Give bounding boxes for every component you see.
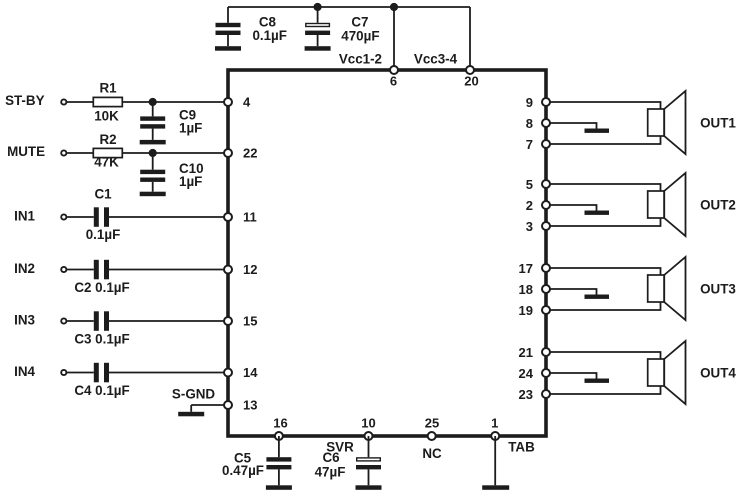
- node IN2 input terminal: [14, 261, 66, 276]
- svg-text:IN3: IN3: [14, 313, 35, 328]
- svg-text:R1: R1: [99, 81, 117, 96]
- svg-text:25: 25: [425, 416, 439, 431]
- ground (C5): [266, 469, 292, 489]
- svg-text:8: 8: [526, 116, 533, 131]
- label C6 value 47uF: [315, 450, 346, 480]
- node TAB: [508, 440, 535, 455]
- node MUTE input terminal: [7, 144, 66, 159]
- pin 21: [519, 345, 550, 360]
- label OUT1: [700, 116, 736, 131]
- label C5 value 0.47uF: [222, 451, 264, 479]
- pin 12: [224, 262, 257, 277]
- label OUT4: [700, 366, 736, 381]
- ground (TAB): [482, 485, 509, 490]
- svg-text:Vcc3-4: Vcc3-4: [414, 51, 458, 66]
- pin 25: [425, 416, 439, 441]
- pin 19: [519, 303, 550, 318]
- svg-text:23: 23: [519, 387, 533, 402]
- pin 16: [273, 416, 287, 441]
- capacitor C6 (electrolytic): [356, 436, 381, 469]
- speaker OUT4: [648, 341, 686, 404]
- svg-text:12: 12: [243, 262, 257, 277]
- op-amp IC U1 (quad power amplifier) outline: [228, 70, 546, 436]
- node SVR: [326, 440, 354, 455]
- pin 7: [526, 137, 550, 152]
- svg-text:21: 21: [519, 345, 533, 360]
- svg-text:1µF: 1µF: [179, 121, 202, 136]
- ground (C6): [356, 469, 382, 489]
- svg-text:19: 19: [519, 303, 533, 318]
- svg-text:18: 18: [519, 282, 533, 297]
- node IN3 input terminal: [14, 313, 66, 328]
- wire R1 to pin 4: [122, 101, 228, 103]
- svg-text:14: 14: [243, 365, 258, 380]
- pin 22: [224, 146, 257, 161]
- wire drop to pin 20: [469, 7, 471, 70]
- capacitor C4: [94, 363, 109, 383]
- svg-text:C4 0.1µF: C4 0.1µF: [74, 383, 129, 398]
- svg-text:3: 3: [526, 219, 533, 234]
- svg-text:OUT2: OUT2: [700, 198, 736, 213]
- svg-text:24: 24: [519, 366, 534, 381]
- svg-text:13: 13: [243, 398, 257, 413]
- label R2 value 47K: [94, 155, 119, 170]
- label C10 value 1uF: [179, 161, 204, 189]
- wire pin 2 to ground: [550, 205, 597, 211]
- svg-text:OUT4: OUT4: [700, 366, 736, 381]
- svg-text:22: 22: [243, 146, 257, 161]
- label C1 value 0.1uF: [86, 187, 121, 243]
- capacitor C8: [216, 7, 241, 35]
- svg-text:9: 9: [526, 95, 533, 110]
- node S-GND: [172, 387, 215, 402]
- capacitor C9: [140, 102, 165, 129]
- node Vcc1-2: [339, 51, 382, 66]
- wire Vcc top rail: [228, 6, 470, 8]
- ground (C9): [140, 129, 166, 145]
- svg-text:OUT1: OUT1: [700, 116, 736, 131]
- wire IN4 to C4: [66, 372, 93, 374]
- wire C3 to pin 15: [109, 320, 228, 322]
- pin 15: [224, 314, 257, 329]
- ground (C8): [215, 35, 241, 51]
- capacitor C5: [266, 436, 291, 469]
- wire drop to pin 6: [393, 7, 395, 70]
- junction at pin-6 branch: [390, 3, 398, 11]
- wire pin 18 to ground: [550, 289, 597, 295]
- node NC: [422, 446, 442, 461]
- svg-text:10: 10: [361, 416, 375, 431]
- wire pin 5 to speaker OUT2 plus: [550, 184, 661, 191]
- speaker OUT2: [648, 173, 686, 236]
- capacitor C2: [94, 260, 109, 280]
- node IN1 input terminal: [14, 209, 66, 224]
- svg-text:47µF: 47µF: [315, 465, 346, 480]
- pin 2: [526, 198, 550, 213]
- capacitor C7 (electrolytic): [305, 7, 330, 35]
- capacitor C1: [94, 207, 109, 227]
- ground (S-GND): [178, 405, 204, 416]
- wire IN3 to C3: [66, 320, 93, 322]
- label OUT3: [700, 282, 736, 297]
- pin 9: [526, 95, 550, 110]
- wire pin 24 to ground: [550, 373, 597, 379]
- resistor R2: [93, 132, 122, 158]
- wire pin 17 to speaker OUT3 plus: [550, 268, 661, 275]
- pin 17: [519, 261, 550, 276]
- ground (C10): [140, 182, 166, 196]
- pin 3: [526, 219, 550, 234]
- capacitor C3: [94, 311, 109, 331]
- junction MUTE/C10: [149, 149, 157, 157]
- pin 8: [526, 116, 550, 131]
- svg-text:47K: 47K: [94, 155, 119, 170]
- wire pin 9 to speaker OUT1 plus: [550, 102, 661, 109]
- svg-text:R2: R2: [99, 132, 116, 147]
- pin 13: [224, 398, 257, 413]
- svg-text:C6: C6: [322, 450, 339, 465]
- label C9 value 1uF: [179, 108, 202, 136]
- pin 4: [224, 95, 251, 110]
- wire R2 to pin 22: [122, 152, 228, 154]
- junction at C7: [314, 3, 322, 11]
- svg-text:0.47µF: 0.47µF: [222, 463, 264, 478]
- junction ST-BY/C9: [149, 98, 157, 106]
- ground (OUT3 center tap): [585, 295, 610, 299]
- ground (OUT4 center tap): [585, 379, 610, 383]
- label OUT2: [700, 198, 736, 213]
- wire TAB to ground: [494, 436, 496, 485]
- capacitor C10: [140, 153, 165, 182]
- pin 5: [526, 177, 550, 192]
- wire pin 3 to speaker OUT2 minus: [550, 218, 661, 226]
- pin 20: [464, 66, 478, 89]
- pin 1: [491, 416, 499, 441]
- svg-text:1: 1: [491, 416, 498, 431]
- svg-text:NC: NC: [422, 446, 442, 461]
- pin 11: [224, 210, 257, 225]
- wire pin 8 to ground: [550, 123, 597, 129]
- svg-text:ST-BY: ST-BY: [5, 93, 45, 108]
- svg-text:MUTE: MUTE: [7, 144, 45, 159]
- svg-text:OUT3: OUT3: [700, 282, 736, 297]
- wire pin 13 to S-GND ground: [191, 404, 224, 406]
- speaker OUT1: [648, 91, 686, 154]
- svg-text:7: 7: [526, 137, 533, 152]
- label C2 value 0.1uF: [74, 280, 129, 295]
- node IN4 input terminal: [14, 364, 66, 379]
- wire pin 7 to speaker OUT1 minus: [550, 136, 661, 144]
- node Vcc3-4: [414, 51, 458, 66]
- speaker OUT3: [648, 257, 686, 320]
- svg-text:470µF: 470µF: [341, 28, 379, 43]
- wire pin 19 to speaker OUT3 minus: [550, 302, 661, 310]
- svg-text:20: 20: [464, 74, 478, 89]
- label C7 value 470uF: [341, 15, 379, 44]
- svg-text:0.1µF: 0.1µF: [252, 28, 287, 43]
- pin 23: [519, 387, 550, 402]
- wire pin 23 to speaker OUT4 minus: [550, 386, 661, 394]
- label C3 value 0.1uF: [74, 332, 129, 347]
- pin 18: [519, 282, 550, 297]
- ground (OUT2 center tap): [585, 211, 610, 215]
- label C4 value 0.1uF: [74, 383, 129, 398]
- svg-text:TAB: TAB: [508, 440, 535, 455]
- wire C2 to pin 12: [109, 269, 228, 271]
- wire pin 21 to speaker OUT4 plus: [550, 352, 661, 359]
- pin 6: [390, 66, 398, 89]
- svg-text:5: 5: [526, 177, 533, 192]
- svg-text:4: 4: [243, 95, 251, 110]
- pin 14: [224, 365, 258, 380]
- wire ST-BY to R1: [66, 101, 93, 103]
- svg-text:11: 11: [243, 210, 257, 225]
- svg-text:6: 6: [390, 74, 397, 89]
- svg-text:17: 17: [519, 261, 533, 276]
- label C8 value 0.1uF: [252, 15, 287, 44]
- ground (C7): [305, 35, 331, 51]
- wire MUTE to R2: [66, 152, 93, 154]
- wire C1 to pin 11: [109, 216, 228, 218]
- svg-text:10K: 10K: [94, 109, 119, 124]
- svg-text:Vcc1-2: Vcc1-2: [339, 51, 382, 66]
- svg-text:C2 0.1µF: C2 0.1µF: [74, 280, 129, 295]
- svg-text:S-GND: S-GND: [172, 387, 215, 402]
- svg-text:IN2: IN2: [14, 261, 35, 276]
- svg-text:IN4: IN4: [14, 364, 35, 379]
- svg-text:IN1: IN1: [14, 209, 35, 224]
- ground (OUT1 center tap): [585, 129, 610, 133]
- svg-text:0.1µF: 0.1µF: [86, 227, 121, 242]
- wire IN1 to C1: [66, 216, 93, 218]
- resistor R1: [93, 81, 122, 107]
- wire IN2 to C2: [66, 269, 93, 271]
- svg-text:C3 0.1µF: C3 0.1µF: [74, 332, 129, 347]
- svg-text:C7: C7: [351, 15, 368, 30]
- wire C4 to pin 14: [109, 372, 228, 374]
- svg-text:1µF: 1µF: [179, 174, 202, 189]
- node ST-BY input terminal: [5, 93, 66, 108]
- pin 10: [361, 416, 375, 441]
- pin 24: [519, 366, 550, 381]
- label R1 value 10K: [94, 109, 119, 124]
- svg-text:2: 2: [526, 198, 533, 213]
- svg-text:16: 16: [273, 416, 287, 431]
- svg-text:C1: C1: [94, 187, 112, 202]
- svg-text:15: 15: [243, 314, 257, 329]
